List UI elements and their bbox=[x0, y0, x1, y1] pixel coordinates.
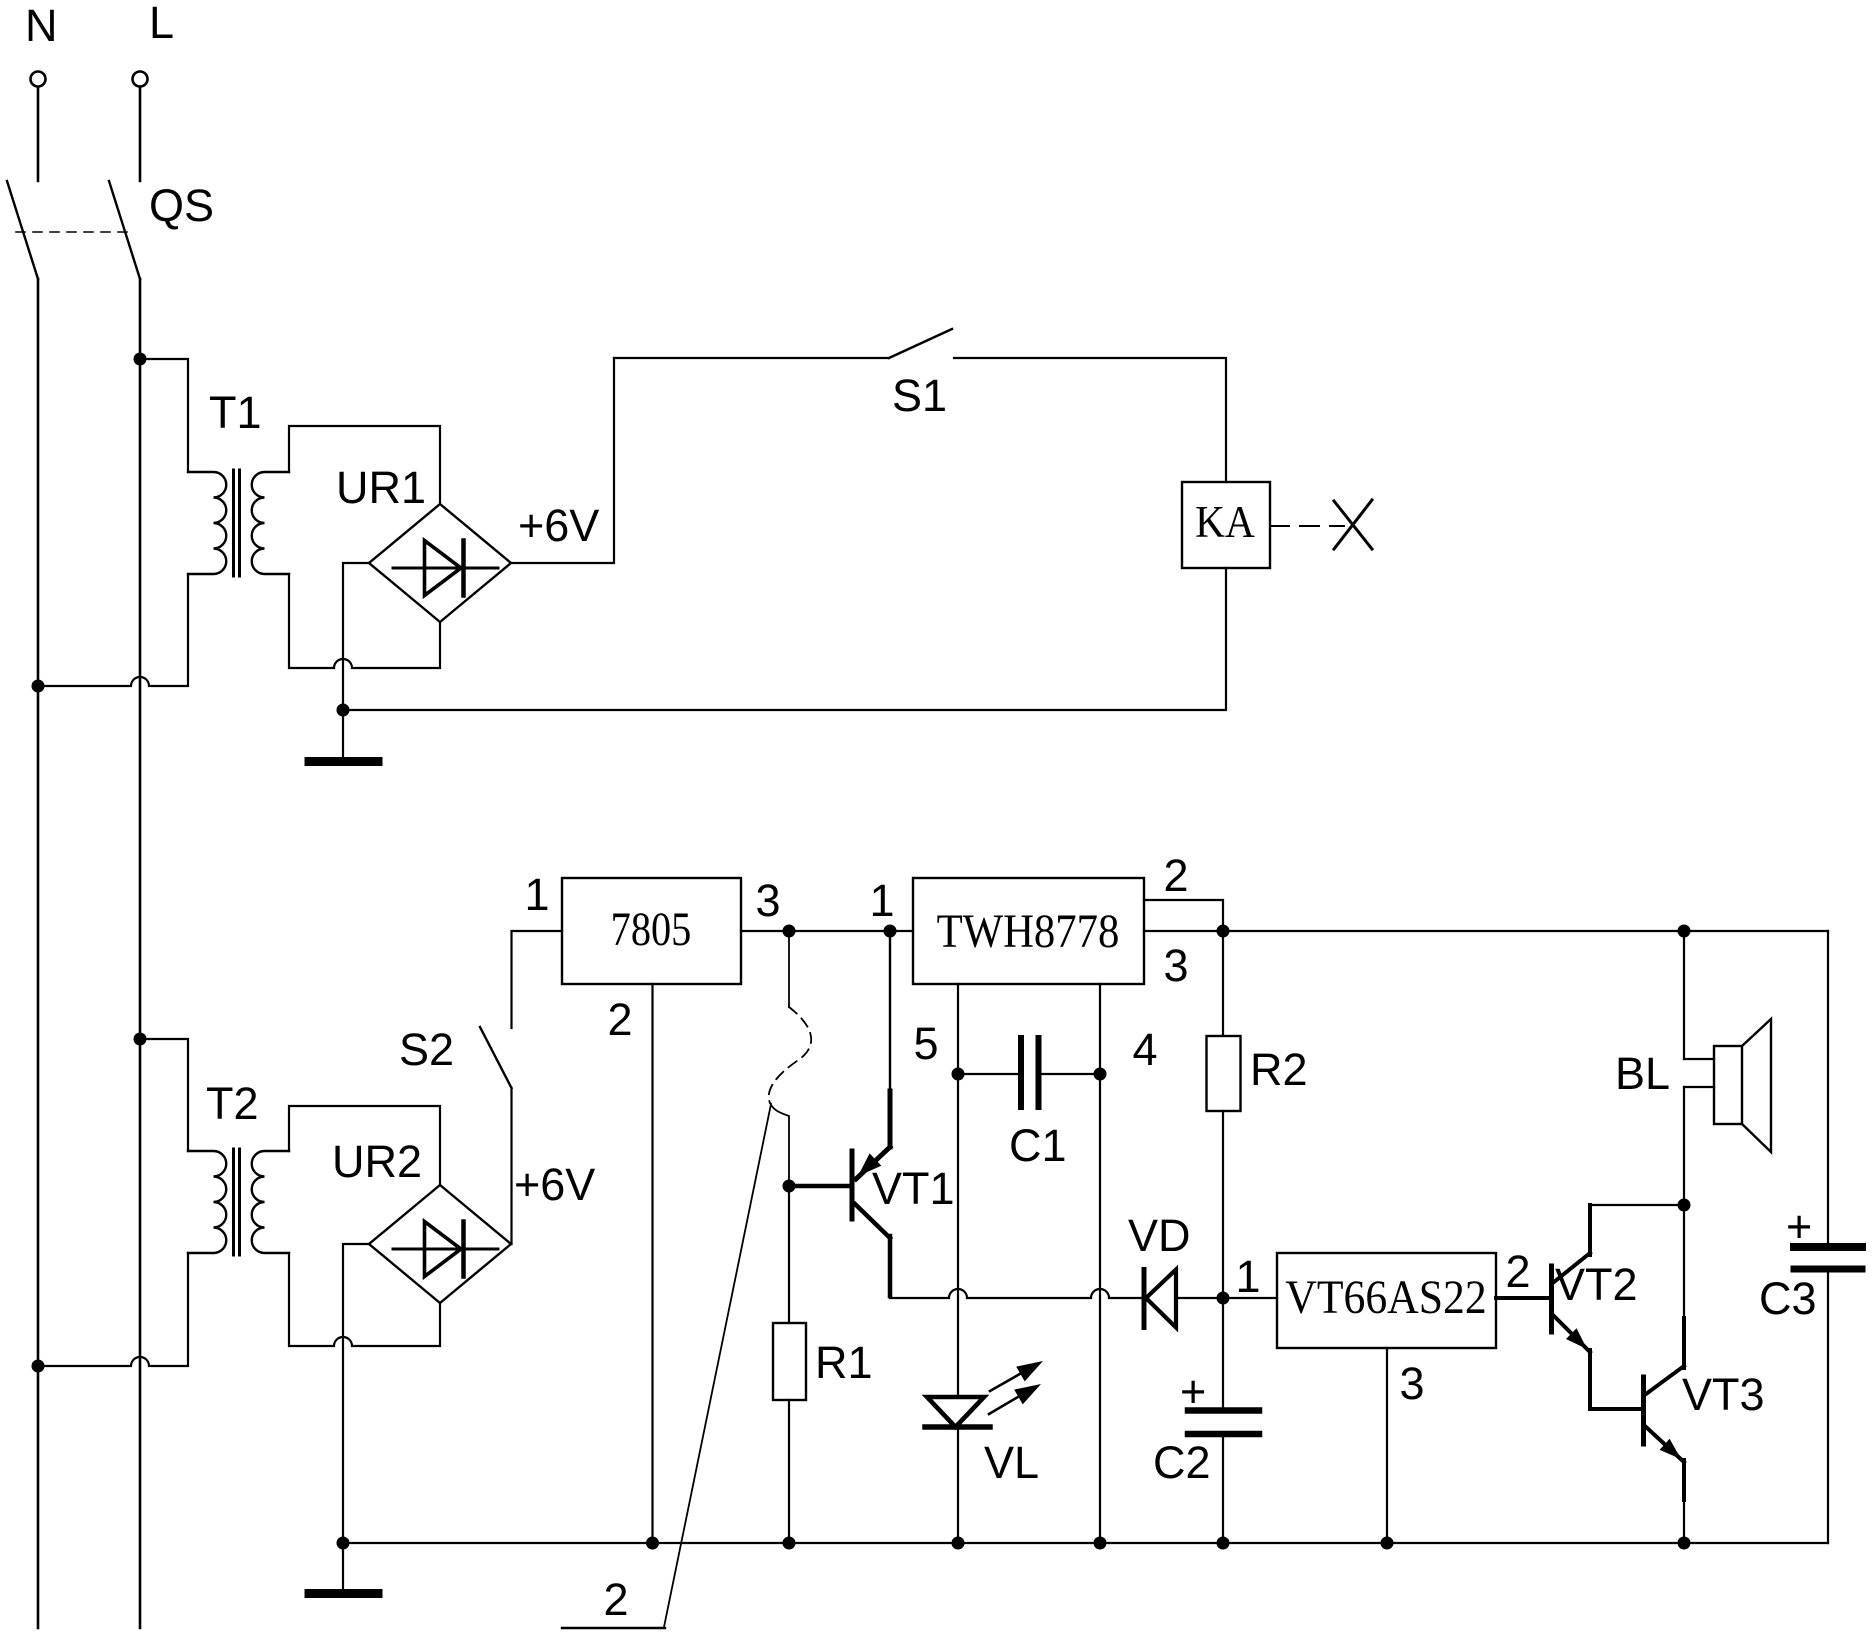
transistor VT2 collector lead bbox=[1554, 1253, 1590, 1282]
wire TWH pin3 to +V bus bbox=[1144, 930, 1828, 932]
transistor VT1 emitter wire from bus bbox=[889, 931, 891, 1093]
svg-text:2: 2 bbox=[1505, 1246, 1530, 1297]
transistor VT3 base bar bbox=[1641, 1377, 1646, 1444]
node junction dot on L at T2 tap bbox=[134, 1033, 147, 1046]
wire VT3 emitter to ground bus bbox=[1683, 1500, 1685, 1543]
bridge rectifier UR2 inner diode bbox=[393, 1248, 498, 1251]
node junction dot bus at R2 bbox=[1217, 925, 1230, 938]
ground symbol lower lead bbox=[342, 1543, 344, 1589]
transformer T2 secondary winding bbox=[252, 1151, 289, 1253]
resistor R1 wires bbox=[788, 1186, 790, 1323]
svg-text:VL: VL bbox=[984, 1437, 1039, 1488]
node junction dot bus at BL bbox=[1678, 925, 1691, 938]
resistor R2 wires bbox=[1222, 931, 1224, 1036]
wire VT3 collector up to dot bbox=[1683, 1205, 1685, 1318]
svg-text:UR2: UR2 bbox=[332, 1136, 422, 1187]
ground symbol upper bbox=[309, 757, 378, 766]
svg-text:S1: S1 bbox=[892, 370, 947, 421]
transistor VT2 emitter lead bbox=[1554, 1316, 1590, 1352]
wire C3 to ground bus corner bbox=[1827, 1273, 1829, 1543]
transistor VT1 emitter arrow (PNP into base) bbox=[858, 1153, 881, 1176]
speaker BL terminals bbox=[1684, 1058, 1714, 1060]
svg-text:R1: R1 bbox=[815, 1337, 873, 1388]
svg-text:1: 1 bbox=[869, 875, 894, 926]
wire T2 secondary bottom to UR2 AC2 (hop over ground column) bbox=[289, 1253, 440, 1346]
resistor R1 body bbox=[773, 1323, 806, 1400]
wire BL column lower bbox=[1683, 1087, 1685, 1205]
wire T1 secondary top to UR1 AC1 bbox=[289, 426, 440, 504]
LED VL triangle bbox=[927, 1397, 984, 1427]
svg-text:KA: KA bbox=[1195, 497, 1255, 547]
svg-text:T1: T1 bbox=[209, 387, 262, 438]
speaker BL horn bbox=[1742, 1019, 1771, 1152]
svg-text:VT1: VT1 bbox=[872, 1163, 955, 1214]
svg-text:C3: C3 bbox=[1759, 1273, 1817, 1324]
transistor VT2 emitter arrow bbox=[1566, 1328, 1587, 1349]
wire lower ground bus bbox=[343, 1542, 1828, 1544]
svg-text:C2: C2 bbox=[1153, 1437, 1211, 1488]
wire VT2 collector to BL column bbox=[1590, 1204, 1684, 1206]
node N terminal circle bbox=[31, 72, 46, 87]
LED VL cathode bar bbox=[925, 1424, 990, 1430]
diode VD triangle bbox=[1146, 1270, 1176, 1328]
wire VD to VT66AS22 pin1 bbox=[1176, 1297, 1277, 1299]
switch S2 blade bbox=[480, 1027, 512, 1088]
wire TWH pin4 column bbox=[1099, 984, 1101, 1543]
node junction dot on N lower bbox=[32, 1360, 45, 1373]
svg-text:C1: C1 bbox=[1009, 1120, 1067, 1171]
wire L to T1 primary top bbox=[140, 359, 188, 472]
svg-text:3: 3 bbox=[755, 875, 780, 926]
wire T2 primary bottom to N (hop over L) bbox=[38, 1253, 188, 1366]
transformer T1 secondary winding bbox=[252, 472, 289, 574]
transistor VT3 emitter lead bbox=[1646, 1427, 1684, 1462]
wire 7805 pin3 to TWH8778 pin1 bbox=[741, 930, 913, 932]
relay KA contact dashed link bbox=[1270, 525, 1344, 527]
regulator 7805 box bbox=[562, 878, 741, 984]
svg-text:+: + bbox=[1180, 1366, 1206, 1417]
node junction dot on N bbox=[32, 680, 45, 693]
switch QS pole 1 blade bbox=[7, 181, 38, 279]
capacitor C3 plates bbox=[1794, 1243, 1862, 1251]
transistor VT1 base wire bbox=[789, 1184, 850, 1189]
terminal 2 line bbox=[562, 1627, 665, 1629]
wire N bus vertical bbox=[37, 279, 40, 1628]
capacitor C1 plates bbox=[1018, 1038, 1024, 1107]
IC TWH8778 box bbox=[913, 878, 1144, 984]
wire +V bus down to C3 bbox=[1827, 931, 1829, 1243]
transformer T1 primary winding bbox=[188, 472, 226, 574]
transformer T2 core bbox=[232, 1149, 235, 1255]
svg-text:VT3: VT3 bbox=[1682, 1369, 1765, 1420]
svg-text:TWH8778: TWH8778 bbox=[937, 905, 1120, 958]
transistor VT3 emitter arrow bbox=[1660, 1439, 1681, 1459]
transformer T2 primary winding bbox=[188, 1151, 226, 1253]
svg-text:1: 1 bbox=[1235, 1251, 1260, 1302]
wire TWH pin2 bbox=[1144, 900, 1223, 931]
transistor VT3 collector lead bbox=[1646, 1366, 1684, 1394]
wire UR1 DC- to ground bbox=[343, 563, 369, 710]
wire UR2 DC- to lower ground bus bbox=[343, 1244, 369, 1543]
svg-text:N: N bbox=[25, 0, 58, 51]
capacitor C2 plates bbox=[1188, 1407, 1259, 1414]
node junction dot VT1 emitter tap bbox=[884, 925, 897, 938]
switch S2 upper wire from 7805 pin1 bbox=[512, 931, 563, 1028]
svg-text:3: 3 bbox=[1163, 940, 1188, 991]
switch QS pole 2 blade bbox=[109, 181, 140, 279]
wire VT66 pin2 to VT2 base bbox=[1496, 1296, 1549, 1300]
node junction dot VD-R2-C2 bbox=[1217, 1292, 1230, 1305]
bridge rectifier UR2 diamond bbox=[369, 1185, 511, 1303]
svg-text:VD: VD bbox=[1128, 1210, 1191, 1261]
wire S2 to UR2 DC+ bbox=[510, 1088, 512, 1244]
wire T1 primary bottom to N (hop over L) bbox=[38, 574, 188, 686]
svg-text:5: 5 bbox=[913, 1018, 938, 1069]
svg-text:BL: BL bbox=[1615, 1048, 1670, 1099]
ground symbol lower bbox=[309, 1589, 378, 1598]
switch QS linkage dashed bbox=[16, 231, 129, 233]
wire KA bottom to ground bus bbox=[343, 568, 1226, 710]
node junction dots on ground bus bbox=[337, 1537, 350, 1550]
bridge rectifier UR1 diamond bbox=[369, 504, 511, 622]
svg-text:QS: QS bbox=[149, 180, 214, 231]
node junction dot R1-base bbox=[783, 1180, 796, 1193]
bridge rectifier UR1 inner diode bbox=[393, 567, 498, 570]
node junction dot collectors bbox=[1678, 1199, 1691, 1212]
wire to switch S1 bbox=[614, 357, 889, 359]
wire N lead into switch bbox=[37, 87, 40, 181]
svg-text:7805: 7805 bbox=[611, 903, 692, 956]
node junction dot on L at T1 tap bbox=[134, 353, 147, 366]
capacitor C1 wires bbox=[958, 1073, 1017, 1075]
node junction dot pin5-C1 bbox=[952, 1068, 965, 1081]
svg-text:R2: R2 bbox=[1250, 1044, 1308, 1095]
transistor VT1 emitter lead bbox=[888, 1091, 893, 1147]
svg-text:3: 3 bbox=[1399, 1358, 1424, 1409]
transformer T1 core bbox=[232, 470, 235, 576]
svg-text:2: 2 bbox=[603, 1574, 628, 1625]
transistor VT1 base bar bbox=[850, 1151, 855, 1219]
LED VL wire below bbox=[957, 1427, 959, 1543]
probe flexible wavy dashed section bbox=[769, 1007, 811, 1103]
node junction dot pin3 bus bbox=[783, 925, 796, 938]
svg-text:VT66AS22: VT66AS22 bbox=[1285, 1270, 1486, 1323]
svg-text:+6V: +6V bbox=[514, 1159, 595, 1210]
svg-text:L: L bbox=[149, 0, 174, 48]
LED VL emission arrows bbox=[990, 1371, 1025, 1391]
wire VT66 pin3 to ground bus bbox=[1386, 1348, 1388, 1543]
node L terminal circle bbox=[133, 72, 148, 87]
svg-text:2: 2 bbox=[1163, 850, 1188, 901]
svg-text:S2: S2 bbox=[399, 1024, 454, 1075]
relay KA contact X bbox=[1334, 501, 1372, 549]
svg-text:+: + bbox=[1786, 1201, 1812, 1252]
wire S1 to KA bbox=[954, 358, 1226, 482]
wire L lead into switch bbox=[139, 87, 142, 181]
svg-text:2: 2 bbox=[607, 994, 632, 1045]
probe lead from pin3 node bbox=[788, 931, 790, 1007]
wire UR1 DC+ to S1 (+6V) bbox=[511, 358, 614, 563]
svg-text:+6V: +6V bbox=[518, 500, 599, 551]
wire T2 secondary top to UR2 AC1 bbox=[289, 1106, 440, 1185]
switch S1 blade bbox=[889, 329, 952, 358]
IC VT66AS22 box bbox=[1277, 1253, 1496, 1348]
transistor VT2 base bar bbox=[1549, 1266, 1554, 1332]
relay KA box bbox=[1182, 482, 1270, 568]
wire VT2 emitter to VT3 base bbox=[1590, 1407, 1641, 1411]
svg-text:UR1: UR1 bbox=[336, 462, 426, 513]
wire VT1 collector to VD (hops over pin5 and pin4 columns) bbox=[890, 1289, 1144, 1298]
wire L to T2 primary top bbox=[140, 1039, 188, 1151]
resistor R2 body bbox=[1207, 1036, 1241, 1111]
wire TWH pin5 column bbox=[957, 984, 959, 1397]
transistor VT1 collector lead bbox=[855, 1204, 890, 1238]
probe long lead to terminal 2 bbox=[664, 1104, 771, 1627]
speaker BL body bbox=[1714, 1046, 1742, 1124]
svg-text:T2: T2 bbox=[206, 1078, 259, 1129]
svg-text:4: 4 bbox=[1132, 1024, 1157, 1075]
capacitor C2 wires bbox=[1222, 1298, 1224, 1407]
ground symbol upper lead bbox=[342, 710, 344, 757]
wire L bus vertical bbox=[139, 279, 142, 1628]
svg-text:1: 1 bbox=[524, 869, 549, 920]
svg-text:VT2: VT2 bbox=[1555, 1259, 1638, 1310]
wire BL column upper bbox=[1683, 931, 1685, 1059]
node junction dot pin4-C1 bbox=[1094, 1068, 1107, 1081]
wire T1 secondary bottom to UR1 AC2 (hop over ground column) bbox=[289, 574, 440, 668]
node junction dot ground UR1 bbox=[337, 704, 350, 717]
wire 7805 pin2 to ground bus bbox=[651, 984, 653, 1543]
diode VD cathode bar bbox=[1142, 1270, 1147, 1328]
